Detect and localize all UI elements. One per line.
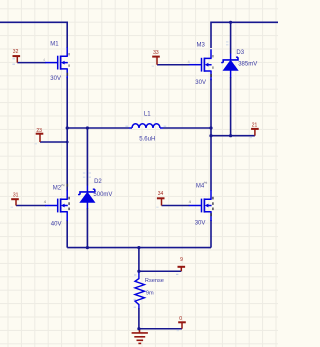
- transistor M3: [189, 49, 212, 80]
- svg-text:500mV: 500mV: [93, 192, 112, 198]
- svg-text:9m: 9m: [146, 291, 154, 297]
- wire Rsense to ground node: [138, 308, 140, 329]
- pin numbers (M2 right pins): [67, 184, 71, 210]
- svg-text:32: 32: [13, 49, 19, 55]
- pin numbers (M3 right pins): [210, 55, 214, 77]
- junction (138.7,247.6): [137, 246, 140, 249]
- wire M3 source down through bus node to M4 drain: [210, 79, 212, 191]
- svg-text:31: 31: [13, 192, 19, 198]
- power port 33: [152, 50, 160, 65]
- pin artifact dashes (D3 top): [226, 41, 228, 45]
- power port 21: [251, 122, 259, 135]
- svg-text:30V: 30V: [50, 76, 61, 82]
- pin artifact dashes (Rsense / port 9): [134, 274, 179, 308]
- svg-text:385mV: 385mV: [238, 61, 257, 67]
- svg-text:30V: 30V: [195, 80, 206, 86]
- svg-text:23: 23: [36, 128, 42, 134]
- wire D3 column upper: [230, 22, 232, 53]
- svg-text:40V: 40V: [51, 222, 62, 228]
- pin numbers (M4 right pins): [210, 197, 214, 216]
- power port 23: [36, 128, 44, 142]
- pin artifact dashes (other ports): [11, 66, 252, 332]
- transistor M4: [189, 190, 212, 221]
- diode D3 (schottky): [221, 54, 238, 78]
- junction (230.6,135.7): [229, 134, 232, 137]
- wire port33 to M3 gate: [157, 64, 189, 66]
- svg-text:D2: D2: [94, 179, 102, 185]
- transistor M1: [45, 47, 68, 78]
- pin artifact dashes (port 32): [12, 58, 15, 65]
- wire M2 source to bottom rail: [66, 220, 68, 248]
- wire bus right segment: [163, 127, 211, 129]
- power port 34: [157, 191, 165, 205]
- junction (67.2,142): [66, 141, 69, 144]
- junction (87.4,128): [86, 126, 89, 129]
- junction (138.7,328.7): [137, 327, 140, 330]
- power port 31: [11, 192, 19, 205]
- svg-text:D3: D3: [236, 50, 244, 56]
- wire M4 source to bottom rail: [210, 220, 212, 248]
- wire D2 column lower: [86, 208, 88, 248]
- junction (138.7,270.7): [137, 270, 140, 273]
- wire center column rail to Rsense: [138, 248, 140, 273]
- wire port32 to M1 gate: [17, 62, 45, 64]
- wire bus left segment: [67, 127, 129, 129]
- svg-text:M3: M3: [197, 43, 206, 49]
- junction (211,135.7): [209, 134, 212, 137]
- svg-text:M1: M1: [50, 41, 59, 47]
- wire bottom rail: [67, 247, 211, 249]
- svg-text:33: 33: [153, 50, 159, 56]
- wire top-right output: [211, 22, 278, 48]
- junction (230.6,22.3): [229, 21, 232, 24]
- svg-text:Rsense: Rsense: [145, 278, 164, 284]
- svg-text:M2: M2: [53, 186, 62, 192]
- wire port34 to M4 gate: [162, 205, 190, 207]
- svg-text:34: 34: [158, 191, 164, 197]
- pin numbers (M1 right pins): [67, 53, 71, 76]
- transistor M2: [45, 190, 68, 221]
- annotation mark after M2: [61, 184, 64, 186]
- pin artifact dashes (D2 top): [83, 172, 91, 177]
- power port 9: [178, 257, 186, 271]
- wire output node to port21: [211, 135, 255, 137]
- power port 0: [178, 316, 186, 329]
- svg-text:5.6uH: 5.6uH: [139, 137, 155, 143]
- junction (87.4,247.6): [86, 246, 89, 249]
- junction (67.2,128): [66, 126, 69, 129]
- svg-text:21: 21: [252, 122, 258, 128]
- wire port23 stub to left column: [40, 141, 67, 143]
- svg-text:L1: L1: [144, 111, 151, 117]
- power port 32: [13, 49, 21, 62]
- wire port9 tap: [139, 270, 181, 272]
- wire D2 column upper: [86, 128, 88, 186]
- svg-text:30V: 30V: [195, 221, 206, 227]
- ground: [132, 329, 148, 344]
- svg-text:M4: M4: [196, 183, 205, 189]
- wire D3 column lower: [230, 77, 232, 136]
- wire port31 to M2 gate: [16, 205, 46, 207]
- wire M1 source down through bus node to M2 drain: [66, 77, 68, 191]
- diode D2 (schottky): [78, 186, 95, 209]
- junction (211,128): [209, 126, 212, 129]
- wire ground node to port0: [139, 328, 182, 330]
- annotation mark after M4: [203, 182, 206, 184]
- svg-text:9: 9: [180, 257, 183, 263]
- resistor Rsense: [135, 273, 144, 309]
- svg-text:0: 0: [179, 316, 182, 322]
- inductor L1: [129, 124, 163, 128]
- pin artifact dashes (L1 ends): [125, 126, 166, 127]
- wire top-left input to M1 drain: [0, 22, 67, 48]
